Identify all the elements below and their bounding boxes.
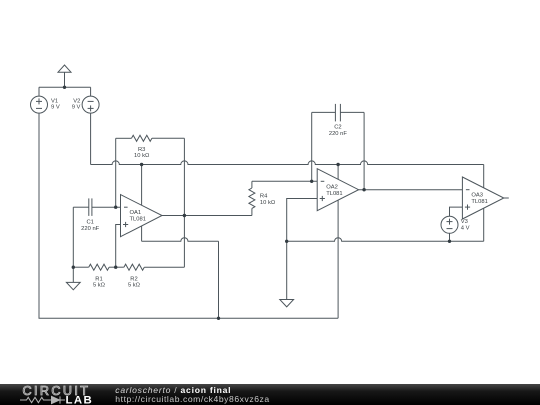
svg-text:C1: C1 [86, 220, 93, 226]
op-amp OA1 [121, 195, 163, 237]
ground G1 [66, 267, 80, 290]
wire OA1 noninverting input [116, 225, 121, 268]
wire ground run right [287, 238, 484, 242]
junction ground rail node [285, 240, 288, 243]
op-amp OA3 [462, 177, 503, 219]
svg-text:OA2: OA2 [326, 184, 338, 190]
wire drop to bottom bus [218, 241, 220, 318]
svg-text:V1: V1 [51, 98, 58, 104]
wire main bus [91, 161, 484, 165]
svg-text:9 V: 9 V [72, 105, 81, 111]
wire V1 top lead [38, 87, 40, 96]
wire R4 to OA2 inverting input [252, 180, 317, 182]
junction bottom bus node [217, 317, 220, 320]
wire OA3 noninverting input [450, 207, 463, 216]
svg-text:9 V: 9 V [51, 105, 60, 111]
junction top rail node [63, 86, 66, 89]
wire V2 down to main bus [90, 113, 92, 165]
svg-text:LAB: LAB [66, 394, 94, 405]
svg-text:V2: V2 [73, 98, 80, 104]
junction bus node A [140, 163, 143, 166]
wire V2 top lead [90, 87, 92, 96]
wire bus drop behind OA2 [337, 165, 339, 319]
svg-text:220 nF: 220 nF [81, 226, 100, 232]
wire right rail behind OA3 [483, 165, 485, 242]
svg-text:5 kΩ: 5 kΩ [128, 282, 141, 288]
svg-text:R4: R4 [260, 194, 268, 200]
op-amp OA2 [317, 169, 358, 211]
wire feedback to R2 [183, 216, 185, 268]
wire top rail [39, 86, 91, 88]
svg-text:V3: V3 [461, 219, 468, 225]
junction R1-R2 node [114, 266, 117, 269]
footer bar [0, 384, 540, 405]
wire OA1 output [162, 215, 252, 217]
svg-text:OA1: OA1 [130, 210, 142, 216]
resistor R4 [249, 181, 255, 215]
junction OA1 output node [183, 214, 186, 217]
voltage source V3 [441, 216, 458, 233]
svg-text:R3: R3 [138, 147, 145, 153]
svg-text:C2: C2 [334, 125, 341, 131]
resistor R1 [73, 264, 115, 270]
junction OA2 inverting node [310, 180, 313, 183]
junction V3 node [448, 240, 451, 243]
wire V1 to bottom bus [38, 113, 40, 318]
svg-text:TL081: TL081 [471, 199, 487, 205]
wire OA3 output stub [504, 197, 509, 199]
resistor R2 [116, 264, 185, 270]
wire bus drop behind OA1 [141, 165, 143, 242]
junction OA1 inverting node [114, 206, 117, 209]
wire OA2 noninverting input [287, 199, 318, 242]
wire V3 to ground rail [449, 233, 451, 241]
voltage source V1 [31, 96, 48, 113]
svg-text:OA3: OA3 [471, 193, 483, 199]
wire ground run left [142, 238, 219, 242]
junction OA2 output node [362, 188, 365, 191]
ground G2 [280, 241, 294, 307]
junction bus node B [336, 163, 339, 166]
svg-text:5 kΩ: 5 kΩ [93, 282, 106, 288]
svg-text:220 nF: 220 nF [329, 131, 348, 137]
junction C1-R1 ground node [72, 266, 75, 269]
svg-text:TL081: TL081 [326, 191, 342, 197]
voltage source V2 [82, 96, 99, 113]
svg-text:4 V: 4 V [461, 226, 470, 232]
footer logo squiggle [20, 396, 65, 403]
svg-text:TL081: TL081 [130, 217, 146, 223]
svg-text:http://circuitlab.com/ck4by86x: http://circuitlab.com/ck4by86xvz6za [115, 394, 269, 404]
wire C1 to ground node [72, 207, 74, 267]
wire OA2 output [359, 189, 463, 191]
capacitor C2 [312, 104, 364, 190]
svg-text:10 kΩ: 10 kΩ [260, 200, 276, 206]
capacitor C1 [73, 198, 120, 216]
svg-text:10 kΩ: 10 kΩ [134, 153, 150, 159]
wire bottom bus [39, 317, 339, 319]
power rail arrow terminal [58, 65, 71, 87]
resistor R3 [116, 135, 185, 215]
